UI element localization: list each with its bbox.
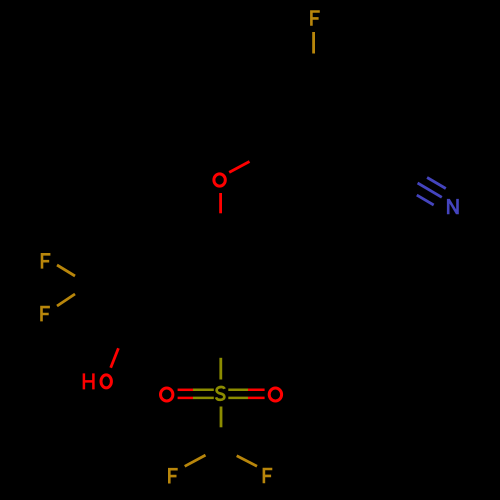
triple bond C#N line 2 (N half) bbox=[418, 183, 442, 197]
S=O left double bond upper line (O half red) bbox=[178, 389, 193, 392]
ether oxygen O label bbox=[214, 174, 225, 186]
bond C-OH (O half) bbox=[111, 348, 119, 368]
S=O left double bond lower line (S half olive) bbox=[193, 397, 214, 400]
hydroxyl H of HO label bbox=[84, 373, 94, 389]
triple bond C#N line 3 (N half) bbox=[417, 195, 434, 205]
S=O right double bond upper line (O half red) bbox=[248, 389, 265, 392]
bond C-F top (F half) bbox=[312, 32, 315, 54]
bond C-F bottom right (F half) bbox=[237, 456, 257, 467]
bond O-C (O half, down) bbox=[219, 193, 222, 213]
S=O right double bond upper line (S half olive) bbox=[228, 389, 248, 392]
fluorine F (bottom left) label bbox=[168, 469, 178, 483]
S=O right double bond lower line (O half red) bbox=[248, 397, 265, 400]
bond C-F bottom left (F half) bbox=[185, 455, 206, 466]
fluorine F (bottom right) label bbox=[263, 469, 273, 483]
triple bond C#N line 1 (N half) bbox=[427, 178, 446, 189]
fluorine F (left upper) label bbox=[41, 254, 51, 268]
fluorine F (left lower) label bbox=[40, 307, 50, 321]
nitrile N label bbox=[448, 199, 457, 214]
sulfonyl right O label bbox=[269, 388, 281, 401]
bond C-F left upper (F half) bbox=[57, 265, 75, 276]
S=O right double bond lower line (S half olive) bbox=[228, 397, 248, 400]
bond O-aryl (O half, up-right) bbox=[229, 162, 249, 173]
bond S-CHF2 (S half, down) bbox=[220, 407, 223, 428]
bond C-F left lower (F half) bbox=[57, 294, 75, 306]
fluorine F (top) label bbox=[310, 12, 320, 26]
hydroxyl O of HO label bbox=[101, 375, 111, 388]
S=O left double bond lower line (O half red) bbox=[178, 397, 193, 400]
sulfonyl left O label bbox=[161, 388, 173, 401]
bond S-aryl (S half, up) bbox=[219, 358, 222, 380]
sulfonyl S label bbox=[216, 387, 225, 400]
S=O left double bond upper line (S half olive) bbox=[193, 389, 214, 392]
